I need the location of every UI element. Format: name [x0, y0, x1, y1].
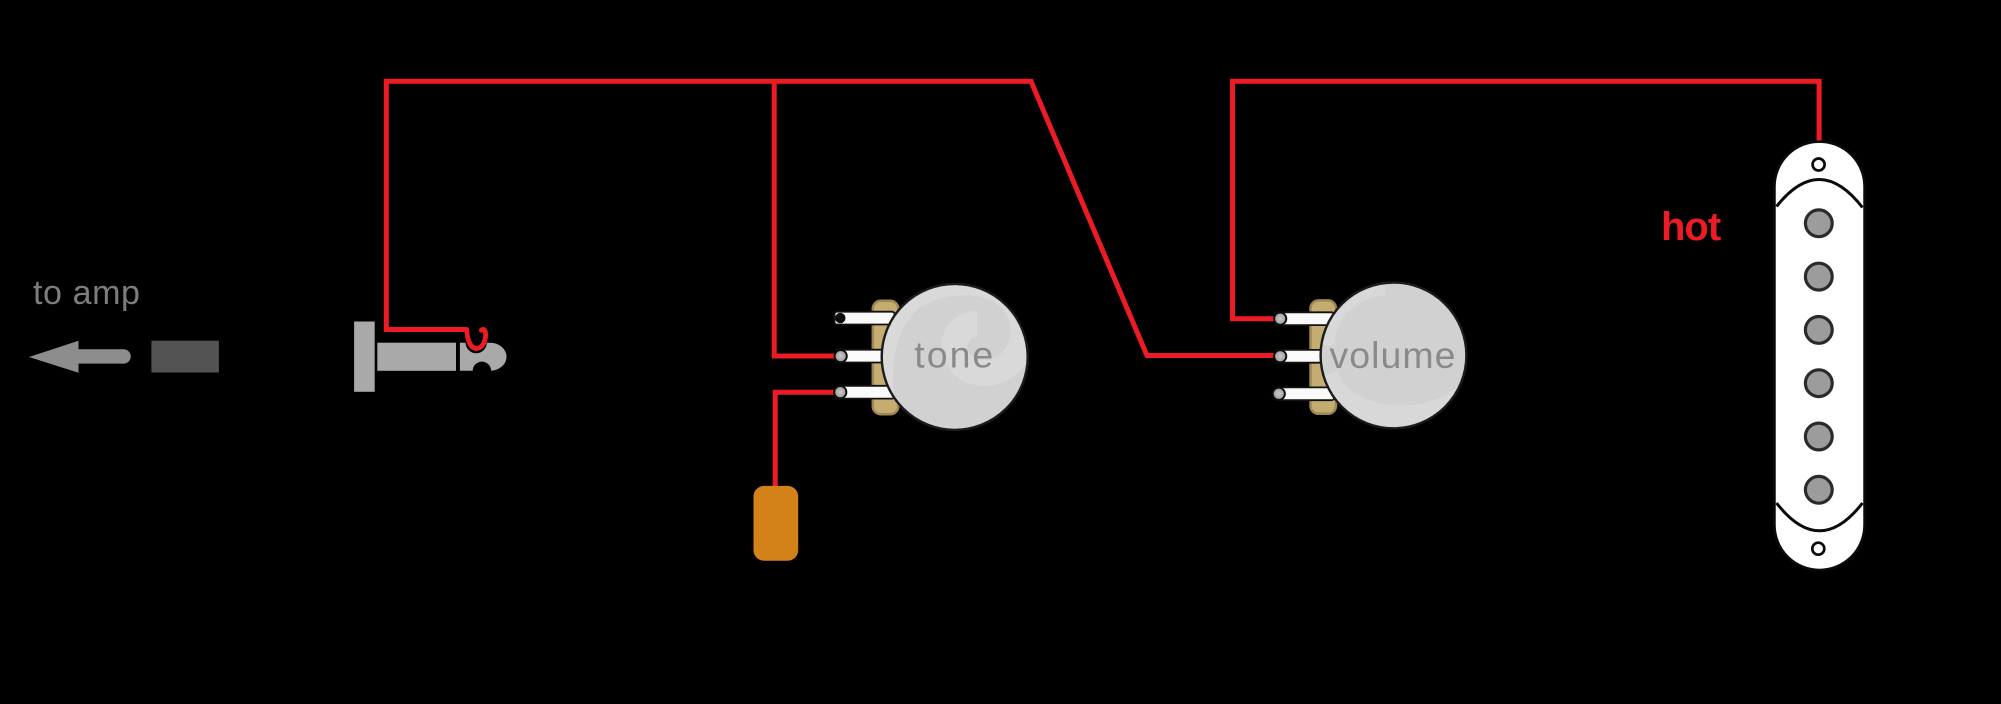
volume lug2 tip — [1274, 350, 1286, 362]
volume lug1 tip — [1274, 313, 1286, 325]
pole piece 6 — [1805, 476, 1832, 503]
jack tip — [460, 343, 507, 371]
capacitor C1 — [754, 486, 799, 561]
pickup bobbin bottom arc — [1777, 503, 1863, 531]
wire: volume top lug to rail 2 to pickup hot — [1233, 81, 1820, 318]
tone pot highlight swirl — [880, 282, 1024, 435]
tone lug3 tip — [834, 386, 846, 398]
wire hook at jack tip — [467, 329, 486, 348]
volume pot highlight swirl — [1325, 286, 1462, 418]
arrow to amp — [29, 341, 131, 373]
svg-text:to amp: to amp — [33, 274, 141, 312]
tone pot casing — [873, 301, 899, 414]
wire: tone bottom lug to capacitor — [775, 392, 839, 487]
volume pot casing — [1311, 300, 1337, 413]
volume pot body — [1321, 283, 1467, 429]
tone lug2 tip — [835, 350, 847, 362]
tone pot lug 1 — [835, 312, 895, 325]
volume pot lug 2 — [1275, 350, 1334, 363]
pole piece 2 — [1805, 263, 1832, 290]
svg-text:volume: volume — [1330, 334, 1457, 376]
volume pot lug 1 — [1275, 312, 1334, 325]
pickup top mounting hole — [1813, 159, 1825, 171]
svg-text:hot: hot — [1661, 205, 1721, 249]
cable segment — [151, 341, 219, 373]
tone pot lug 2 — [836, 350, 895, 363]
pole piece 1 — [1805, 210, 1832, 237]
jack plate — [354, 322, 375, 392]
svg-text:tone: tone — [914, 334, 995, 376]
volume lug3 tip — [1273, 388, 1285, 400]
jack barrel — [377, 343, 456, 371]
pickup bottom mounting hole — [1812, 543, 1824, 555]
pole piece 5 — [1805, 423, 1832, 450]
pickup bobbin top arc — [1777, 179, 1863, 207]
pole piece 3 — [1805, 317, 1832, 344]
volume pot lug 3 — [1275, 387, 1334, 400]
tone pot lug 3 — [836, 386, 895, 399]
tone pot body — [882, 284, 1028, 430]
tone lug1 hole — [835, 313, 845, 323]
pickup body — [1775, 142, 1865, 570]
wire: tee junction to tone middle lug — [774, 81, 839, 356]
pole piece 4 — [1805, 370, 1832, 397]
wire: jack to volume middle lug (hot rail 1 + diagonal) — [386, 81, 1281, 355]
